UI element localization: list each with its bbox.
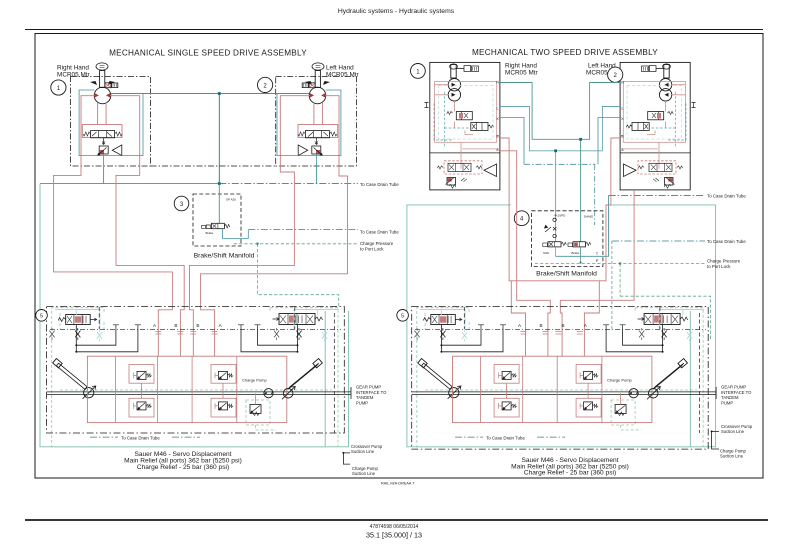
svg-text:5: 5 xyxy=(40,314,43,320)
svg-text:Charge Pressure: Charge Pressure xyxy=(707,259,741,264)
svg-text:Suction Line: Suction Line xyxy=(720,453,744,458)
svg-text:B: B xyxy=(496,135,499,139)
svg-text:35.1 [35.000] / 13: 35.1 [35.000] / 13 xyxy=(366,531,422,540)
svg-text:Right Hand: Right Hand xyxy=(57,65,89,72)
svg-text:Hydraulic systems - Hydraulic: Hydraulic systems - Hydraulic systems xyxy=(338,8,455,15)
svg-text:To Case Drain Tube: To Case Drain Tube xyxy=(707,194,746,199)
svg-text:MCR05 Mtr: MCR05 Mtr xyxy=(326,72,360,79)
svg-text:to Port Lock: to Port Lock xyxy=(360,246,384,251)
svg-text:2: 2 xyxy=(263,83,267,89)
svg-text:X: X xyxy=(496,117,499,121)
svg-text:Shift: Shift xyxy=(543,251,549,255)
svg-text:Charge Relief - 25 bar (360 ps: Charge Relief - 25 bar (360 psi) xyxy=(524,470,616,477)
svg-text:T: T xyxy=(596,251,599,256)
svg-text:Charge Pressure: Charge Pressure xyxy=(360,241,394,246)
svg-text:3: 3 xyxy=(180,202,184,208)
svg-text:B: B xyxy=(621,135,624,139)
svg-text:N: N xyxy=(621,81,624,85)
svg-text:P: P xyxy=(596,258,599,263)
svg-text:Suction Line: Suction Line xyxy=(352,471,376,476)
svg-text:Brake: Brake xyxy=(206,231,214,235)
svg-text:Left Hand: Left Hand xyxy=(326,65,354,72)
svg-text:2SPD: 2SPD xyxy=(558,214,567,218)
svg-text:RAIL M/A-DREAA 7: RAIL M/A-DREAA 7 xyxy=(381,482,414,486)
svg-text:Brake: Brake xyxy=(572,251,580,255)
svg-text:47874598 06/05/2014: 47874598 06/05/2014 xyxy=(370,524,419,530)
svg-text:Right Hand: Right Hand xyxy=(505,63,537,70)
svg-text:to Port Lock: to Port Lock xyxy=(707,264,731,269)
svg-text:MCR05 Mtr: MCR05 Mtr xyxy=(57,72,91,79)
svg-text:Charge Relief - 25 bar (360 ps: Charge Relief - 25 bar (360 psi) xyxy=(137,464,229,471)
svg-text:Brake/Shift Manifold: Brake/Shift Manifold xyxy=(194,253,255,260)
svg-text:Suction Line: Suction Line xyxy=(351,449,375,454)
svg-text:SP A20: SP A20 xyxy=(226,198,236,202)
svg-text:X: X xyxy=(621,117,624,121)
svg-text:SHA82: SHA82 xyxy=(584,215,594,219)
svg-text:L: L xyxy=(622,107,624,111)
svg-text:MCR05 Mtr: MCR05 Mtr xyxy=(505,70,539,77)
svg-text:To Case Drain Tube: To Case Drain Tube xyxy=(360,229,399,234)
svg-text:N: N xyxy=(496,81,499,85)
svg-text:1: 1 xyxy=(57,86,61,92)
svg-text:5: 5 xyxy=(401,314,404,320)
svg-text:Brake/Shift Manifold: Brake/Shift Manifold xyxy=(536,271,597,278)
svg-text:Suction Line: Suction Line xyxy=(721,429,745,434)
svg-text:1: 1 xyxy=(416,69,420,75)
svg-text:MECHANICAL TWO SPEED DRIVE ASS: MECHANICAL TWO SPEED DRIVE ASSEMBLY xyxy=(472,48,658,57)
svg-text:MCR05: MCR05 xyxy=(586,70,608,77)
svg-text:To Case Drain Tube: To Case Drain Tube xyxy=(360,182,399,187)
svg-text:MECHANICAL SINGLE SPEED DRIVE: MECHANICAL SINGLE SPEED DRIVE ASSEMBLY xyxy=(109,49,307,58)
svg-text:To Case Drain Tube: To Case Drain Tube xyxy=(707,239,746,244)
svg-text:L: L xyxy=(497,107,499,111)
